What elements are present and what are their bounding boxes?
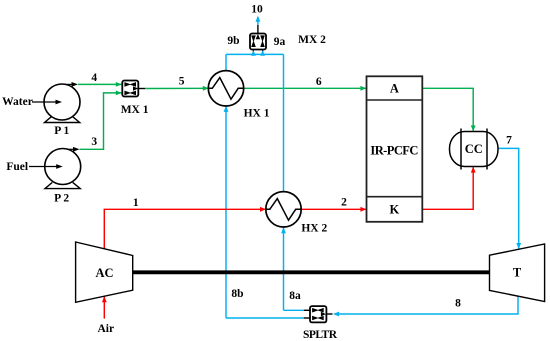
svg-text:8a: 8a (289, 290, 301, 302)
wire 9b arrow into MX2 (251, 50, 256, 56)
Water inlet arrow (32, 100, 62, 105)
svg-text:4: 4 (91, 72, 97, 84)
mixer MX2 (250, 34, 266, 50)
svg-text:AC: AC (95, 266, 113, 280)
heat exchanger HX1 (208, 71, 243, 106)
wire 8a vertical (SPLTR to MX2 via HX2, cyan) (281, 54, 286, 310)
wire 7 (CC to turbine, cyan) (498, 148, 521, 249)
pump P2 (45, 149, 81, 189)
svg-text:MX 1: MX 1 (121, 104, 149, 116)
svg-text:K: K (390, 203, 400, 217)
svg-text:MX 2: MX 2 (298, 34, 326, 46)
mixer MX1 (122, 81, 138, 97)
wire 8a horizontal (to SPLTR) (284, 309, 305, 311)
combustor CC (450, 129, 499, 170)
svg-text:A: A (390, 82, 399, 96)
turbine T (490, 244, 545, 302)
wire 1 (AC to HX2, red) (104, 207, 266, 249)
svg-text:SPLTR: SPLTR (303, 329, 338, 341)
wire 3 (P2 to MX1, green) (63, 91, 122, 152)
svg-text:CC: CC (465, 142, 483, 156)
svg-text:3: 3 (91, 136, 97, 148)
wire 10 (MX2 outlet, cyan) (256, 16, 261, 34)
splitter SPLTR (304, 306, 327, 322)
svg-text:HX 1: HX 1 (244, 107, 270, 119)
pump P1 (44, 84, 80, 123)
wire 9a arrow into MX2 (260, 50, 265, 56)
svg-text:P 2: P 2 (54, 192, 69, 204)
Fuel inlet arrow (29, 164, 63, 169)
fuel cell IR-PCFC (367, 76, 423, 222)
wire K to CC (red) (423, 167, 476, 210)
wire 5 (MX1 to HX1, green) (138, 86, 208, 91)
svg-text:T: T (513, 265, 522, 279)
wire 2 (HX2 to K, red) (302, 207, 367, 212)
svg-text:Water: Water (2, 96, 33, 108)
svg-text:5: 5 (179, 76, 185, 88)
svg-text:HX 2: HX 2 (301, 222, 327, 234)
svg-text:6: 6 (316, 76, 322, 88)
svg-text:7: 7 (506, 134, 512, 146)
wire 8b horizontal (to SPLTR) (226, 317, 304, 319)
svg-text:9b: 9b (227, 35, 239, 47)
wire A to CC (green) (422, 88, 475, 131)
svg-text:10: 10 (251, 3, 263, 15)
svg-text:8: 8 (455, 297, 461, 309)
wire 8b vertical (SPLTR to MX2 via HX1, cyan) (224, 54, 229, 318)
shaft (AC to T) (133, 270, 490, 274)
wire 4 (P1 to MX1, green) (62, 82, 122, 87)
svg-text:8b: 8b (231, 288, 243, 300)
svg-text:IR-PCFC: IR-PCFC (370, 143, 418, 157)
svg-text:Air: Air (97, 323, 114, 335)
wire 8 (turbine to SPLTR, cyan) (326, 296, 518, 316)
svg-text:P 1: P 1 (54, 125, 69, 137)
svg-text:2: 2 (341, 196, 347, 208)
svg-text:9a: 9a (274, 36, 286, 48)
compressor AC (76, 242, 133, 302)
wire MX2 inlet header (cyan) (226, 53, 284, 55)
wire Air inlet (red) (102, 296, 107, 318)
heat exchanger HX2 (266, 192, 301, 227)
svg-text:1: 1 (133, 197, 139, 209)
wire 6 (HX1 to IR-PCFC A, green) (244, 86, 367, 91)
svg-text:Fuel: Fuel (6, 161, 28, 173)
